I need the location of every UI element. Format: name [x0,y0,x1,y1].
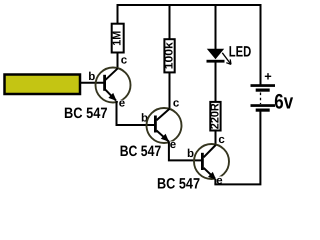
wire touch plate to Q1 base [80,82,104,84]
label c Q1 [120,55,128,67]
label + battery positive [265,73,271,79]
wire Q2 emitter to Q3 base [169,142,202,161]
svg-text:100k: 100k [164,42,176,70]
wire 1M bottom to Q1 collector [117,53,119,69]
wire 100k bottom to Q2 collector [169,73,171,108]
svg-text:220R: 220R [209,103,221,130]
label c Q2 [172,97,180,109]
svg-text:BC 547: BC 547 [64,105,108,122]
svg-text:e: e [170,139,176,151]
svg-text:BC 547: BC 547 [157,176,200,193]
wire LED cathode to 220R [215,62,217,102]
svg-text:c: c [173,97,180,109]
touch plate electrode [5,75,81,95]
svg-text:LED: LED [229,44,252,61]
svg-text:b: b [187,148,194,160]
resistor R2 100k [164,39,176,72]
svg-text:1M: 1M [112,31,124,46]
label e Q1 [118,98,126,110]
svg-text:6v: 6v [274,90,293,113]
wire 220R bottom to Q3 collector [215,131,217,145]
svg-text:BC 547: BC 547 [120,143,162,160]
transistor Q2 BC547 [147,108,182,143]
resistor R3 220R [209,102,221,131]
svg-text:c: c [218,134,225,146]
LED D1 [207,49,232,65]
transistor Q3 BC547 [194,144,229,180]
wire bottom rail to battery negative [214,112,260,185]
wire Q3 emitter down [214,179,216,184]
wire LED top drop from rail [215,6,217,50]
svg-text:b: b [88,71,95,83]
label e Q3 [216,175,224,187]
battery BT1 6v [251,84,276,112]
label e Q2 [169,139,177,151]
transistor Q1 BC547 [96,68,131,103]
svg-text:e: e [119,98,125,110]
svg-text:c: c [121,55,128,67]
wire 100k top drop from rail [169,6,171,39]
resistor R1 1M [112,24,124,53]
wire Q1 emitter to Q2 base [117,101,155,125]
wire top rail (V+ rail from 1M top to battery +) [118,5,261,85]
label c Q3 [218,134,226,146]
